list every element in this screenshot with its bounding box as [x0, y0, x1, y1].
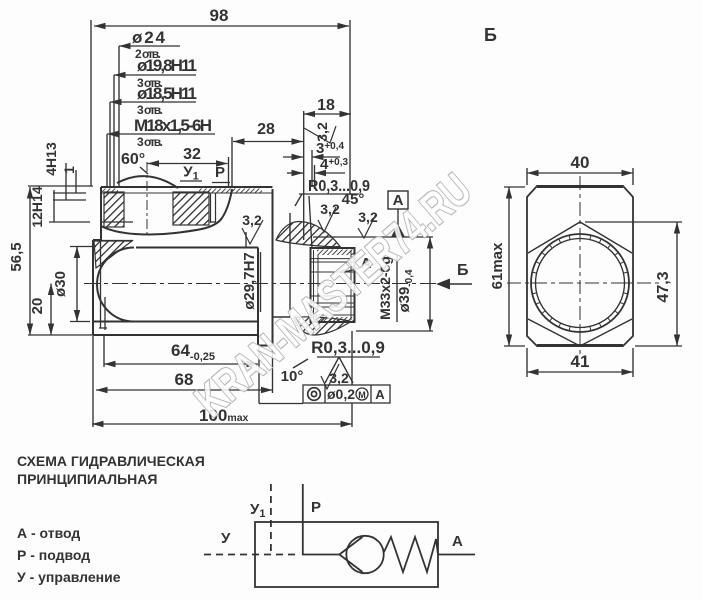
svg-text:98: 98	[210, 6, 229, 25]
svg-text:Б: Б	[457, 262, 469, 279]
svg-text:Р - подвод: Р - подвод	[17, 547, 90, 563]
svg-text:12H14: 12H14	[29, 186, 45, 227]
svg-text:ПРИНЦИПИАЛЬНАЯ: ПРИНЦИПИАЛЬНАЯ	[17, 471, 157, 487]
svg-text:18: 18	[317, 97, 335, 114]
svg-text:3,2: 3,2	[314, 122, 330, 142]
svg-text:ø19,8H11: ø19,8H11	[137, 56, 197, 75]
svg-text:СХЕМА ГИДРАВЛИЧЕСКАЯ: СХЕМА ГИДРАВЛИЧЕСКАЯ	[17, 453, 205, 469]
svg-text:41: 41	[571, 352, 590, 371]
svg-text:45°: 45°	[342, 191, 365, 208]
svg-text:ø24: ø24	[132, 28, 166, 47]
svg-text:ø30: ø30	[52, 271, 69, 297]
svg-text:Р: Р	[215, 164, 225, 181]
svg-text:R0,3...0,9: R0,3...0,9	[311, 338, 385, 357]
svg-text:3,2: 3,2	[329, 370, 349, 386]
svg-text:3 отв.: 3 отв.	[137, 103, 163, 117]
svg-text:У - управление: У - управление	[17, 569, 121, 585]
svg-text:У: У	[221, 530, 231, 547]
svg-text:4H13: 4H13	[43, 142, 59, 176]
svg-text:ø0,2: ø0,2	[327, 386, 355, 402]
svg-text:3,2: 3,2	[242, 212, 262, 228]
svg-text:1: 1	[61, 166, 77, 174]
svg-text:3 отв.: 3 отв.	[137, 135, 163, 149]
svg-text:60°: 60°	[121, 151, 145, 168]
svg-text:40: 40	[571, 153, 590, 172]
svg-text:А: А	[452, 533, 463, 550]
svg-text:M18x1,5-6H: M18x1,5-6H	[134, 116, 212, 135]
svg-text:Б: Б	[484, 25, 497, 45]
svg-text:61max: 61max	[489, 242, 506, 289]
svg-text:А - отвод: А - отвод	[17, 525, 80, 541]
svg-text:ø18,5H11: ø18,5H11	[137, 84, 197, 103]
svg-text:3,2: 3,2	[358, 209, 378, 225]
svg-text:20: 20	[29, 298, 46, 315]
svg-text:56,5: 56,5	[8, 242, 25, 271]
svg-text:3,2: 3,2	[320, 201, 340, 217]
svg-text:47,3: 47,3	[655, 271, 672, 302]
svg-text:ø29,7H7: ø29,7H7	[241, 252, 258, 310]
svg-text:Р: Р	[311, 499, 321, 516]
svg-text:M: M	[358, 390, 366, 400]
svg-text:32: 32	[183, 146, 201, 163]
svg-text:A: A	[375, 387, 385, 402]
svg-text:28: 28	[257, 121, 275, 138]
